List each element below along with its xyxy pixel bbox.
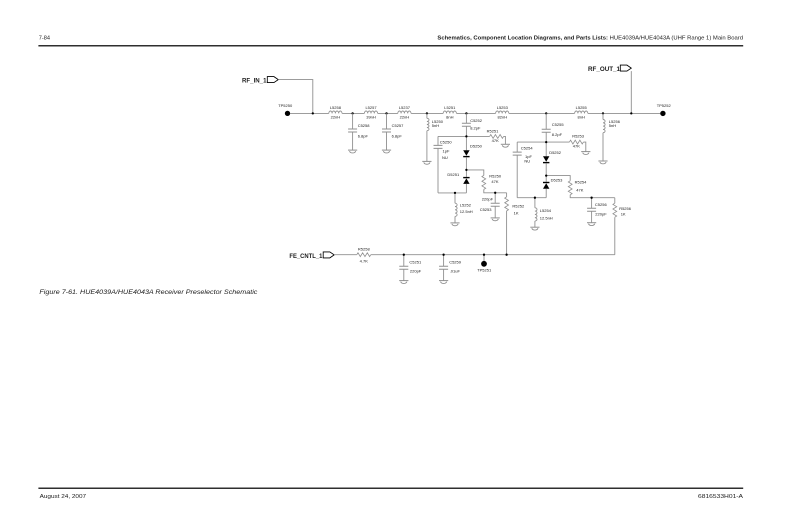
svg-text:82nH: 82nH (498, 115, 508, 120)
svg-text:L5237: L5237 (399, 105, 411, 110)
svg-text:1pF: 1pF (443, 148, 450, 153)
svg-text:TP5251: TP5251 (477, 267, 492, 272)
svg-text:8.2pF: 8.2pF (552, 132, 563, 137)
svg-text:22nH: 22nH (331, 115, 341, 120)
svg-text:47K: 47K (576, 188, 583, 193)
svg-text:D5250: D5250 (470, 144, 483, 149)
svg-text:R5258: R5258 (358, 246, 371, 251)
svg-text:Schematics, Component Location: Schematics, Component Location Diagrams,… (437, 35, 743, 41)
svg-text:12.5nH: 12.5nH (540, 216, 553, 221)
svg-text:47K: 47K (573, 144, 580, 149)
svg-text:8nH: 8nH (446, 115, 453, 120)
svg-text:7-84: 7-84 (39, 36, 50, 42)
svg-text:R5253: R5253 (572, 133, 585, 138)
svg-text:D5252: D5252 (549, 150, 562, 155)
svg-text:220pF: 220pF (482, 197, 494, 202)
svg-text:C5258: C5258 (358, 123, 371, 128)
svg-text:C5259: C5259 (449, 259, 462, 264)
svg-text:NU: NU (442, 155, 448, 160)
svg-text:C5255: C5255 (552, 122, 565, 127)
svg-text:C5254: C5254 (521, 145, 534, 150)
svg-text:L5253: L5253 (497, 105, 509, 110)
svg-text:TP5252: TP5252 (657, 103, 672, 108)
svg-text:August 24, 2007: August 24, 2007 (40, 494, 87, 500)
svg-text:NU: NU (524, 159, 530, 164)
svg-text:D5253: D5253 (551, 178, 564, 183)
svg-text:.01uF: .01uF (450, 268, 461, 273)
svg-text:R5250: R5250 (489, 173, 502, 178)
svg-text:1K: 1K (514, 210, 519, 215)
svg-text:C5257: C5257 (392, 123, 405, 128)
svg-text:L5252: L5252 (460, 203, 472, 208)
svg-text:R5252: R5252 (512, 204, 525, 209)
svg-text:47K: 47K (491, 179, 498, 184)
svg-text:5nH: 5nH (432, 123, 439, 128)
svg-text:220pF: 220pF (595, 212, 607, 217)
svg-text:L5254: L5254 (540, 208, 552, 213)
svg-text:220pF: 220pF (410, 268, 422, 273)
svg-text:6.8pF: 6.8pF (392, 133, 403, 138)
svg-text:47K: 47K (492, 138, 499, 143)
svg-text:8.2pF: 8.2pF (470, 125, 481, 130)
svg-text:1K: 1K (621, 212, 626, 217)
svg-text:22nH: 22nH (400, 115, 410, 120)
svg-text:Figure 7-61. HUE4039A/HUE4043A: Figure 7-61. HUE4039A/HUE4043A Receiver … (39, 289, 258, 296)
svg-text:R5256: R5256 (619, 206, 632, 211)
svg-text:6816533H01-A: 6816533H01-A (698, 494, 743, 500)
svg-text:C5256: C5256 (595, 202, 608, 207)
svg-text:39nH: 39nH (366, 115, 376, 120)
svg-text:TP5250: TP5250 (278, 103, 293, 108)
svg-text:L5251: L5251 (444, 105, 456, 110)
svg-text:C5252: C5252 (470, 118, 483, 123)
svg-text:D5251: D5251 (447, 172, 460, 177)
svg-text:FE_CNTL_1: FE_CNTL_1 (289, 253, 323, 260)
svg-text:12.5nH: 12.5nH (460, 209, 473, 214)
svg-text:6.8pF: 6.8pF (358, 133, 369, 138)
svg-text:C5253: C5253 (480, 207, 493, 212)
svg-text:R5254: R5254 (575, 180, 588, 185)
svg-text:5nH: 5nH (609, 123, 616, 128)
svg-text:C5250: C5250 (440, 140, 453, 145)
svg-text:C5251: C5251 (409, 259, 422, 264)
svg-text:R5251: R5251 (487, 128, 500, 133)
svg-text:L5255: L5255 (576, 105, 588, 110)
svg-text:RF_OUT_1: RF_OUT_1 (588, 66, 621, 73)
svg-text:4.7K: 4.7K (360, 258, 369, 263)
svg-text:8nH: 8nH (578, 115, 585, 120)
svg-text:RF_IN_1: RF_IN_1 (242, 77, 267, 84)
svg-text:L5258: L5258 (330, 105, 342, 110)
svg-text:L5257: L5257 (365, 105, 377, 110)
